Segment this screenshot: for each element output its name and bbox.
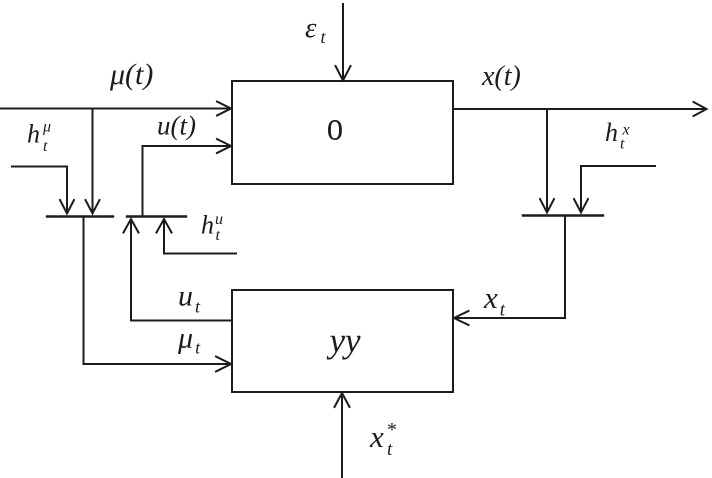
- label u_t: [178, 280, 201, 317]
- svg-text:u: u: [215, 211, 223, 228]
- wire x(t) output horizontal: [453, 108, 705, 110]
- label u(t): [157, 111, 196, 141]
- arrowhead x_t into YY right: [454, 311, 469, 325]
- label O block text: [327, 104, 343, 149]
- arrowhead h-x into right sampler: [574, 199, 588, 213]
- label epsilon_t: [305, 12, 326, 47]
- sampler bar middle (u sampler): [127, 215, 186, 217]
- svg-text:μ(t): μ(t): [109, 58, 153, 91]
- wire h-mu step horizontal: [12, 166, 67, 168]
- svg-text:x: x: [369, 419, 384, 454]
- label x_t^star: [369, 419, 396, 460]
- svg-text:t: t: [216, 227, 221, 244]
- svg-text:o: o: [327, 104, 343, 149]
- wire h-mu step vertical: [66, 167, 68, 212]
- svg-text:yy: yy: [327, 321, 362, 360]
- wire u sampler output up: [142, 146, 144, 215]
- svg-text:ut: ut: [178, 280, 201, 317]
- wire branch from x(t) down to sampler: [546, 109, 548, 210]
- arrowhead u(t) into O left: [217, 139, 231, 153]
- arrowhead u_t up into u sampler: [124, 219, 139, 233]
- wire u_t from YY to sampler: [131, 220, 231, 321]
- svg-text:xt: xt: [483, 280, 506, 321]
- arrowhead h-u up into u sampler: [157, 219, 172, 233]
- wire u(t) horizontal into O: [143, 145, 230, 147]
- label YY block text: [327, 321, 362, 360]
- svg-text:h: h: [201, 211, 214, 240]
- label x(t): [481, 61, 521, 92]
- label mu(t): [109, 58, 153, 91]
- arrowhead x(t) output right end: [694, 102, 707, 116]
- svg-text:μ: μ: [42, 119, 51, 136]
- svg-text:h: h: [605, 118, 618, 147]
- svg-text:εt: εt: [305, 12, 326, 47]
- sampler bar right (x sampler): [523, 214, 603, 216]
- block YY (estimator): [232, 290, 453, 392]
- sampler bar left (mu sampler): [47, 215, 113, 217]
- wire h-u step: [164, 220, 236, 254]
- svg-text:t: t: [43, 138, 48, 155]
- wire mu(t) horizontal into O: [0, 108, 229, 110]
- svg-text:x(t): x(t): [481, 61, 521, 92]
- svg-text:*: *: [386, 419, 396, 441]
- label h_t^u: [201, 211, 223, 245]
- label x_t: [483, 280, 506, 321]
- wire x* reference input vertical: [341, 394, 343, 478]
- wire branch from mu(t) down to sampler: [92, 109, 94, 212]
- svg-text:t: t: [620, 136, 625, 153]
- arrowhead mu(t) into O left: [217, 102, 231, 116]
- svg-text:μt: μt: [177, 322, 201, 358]
- wire h-x step vertical: [580, 166, 582, 210]
- arrowhead x branch into right sampler: [540, 199, 554, 213]
- arrowhead mu branch into left sampler: [86, 200, 100, 214]
- label mu_t: [177, 322, 201, 358]
- wire left sampler output down: [84, 217, 230, 364]
- arrowhead x* into YY bottom: [335, 393, 350, 407]
- label h_t^x: [605, 118, 630, 153]
- wire epsilon input vertical: [342, 4, 344, 79]
- arrowhead h-mu into left sampler: [60, 200, 74, 214]
- arrowhead epsilon into O top: [336, 66, 351, 81]
- wire right sampler output down to YY: [456, 216, 565, 318]
- svg-text:u(t): u(t): [157, 111, 196, 141]
- svg-text:h: h: [27, 120, 40, 149]
- arrowhead mu_t into YY left: [216, 357, 231, 372]
- wire h-x step horizontal: [581, 165, 655, 167]
- label h_t^mu: [27, 119, 51, 156]
- block O (plant): [232, 81, 453, 184]
- svg-text:t: t: [387, 439, 393, 460]
